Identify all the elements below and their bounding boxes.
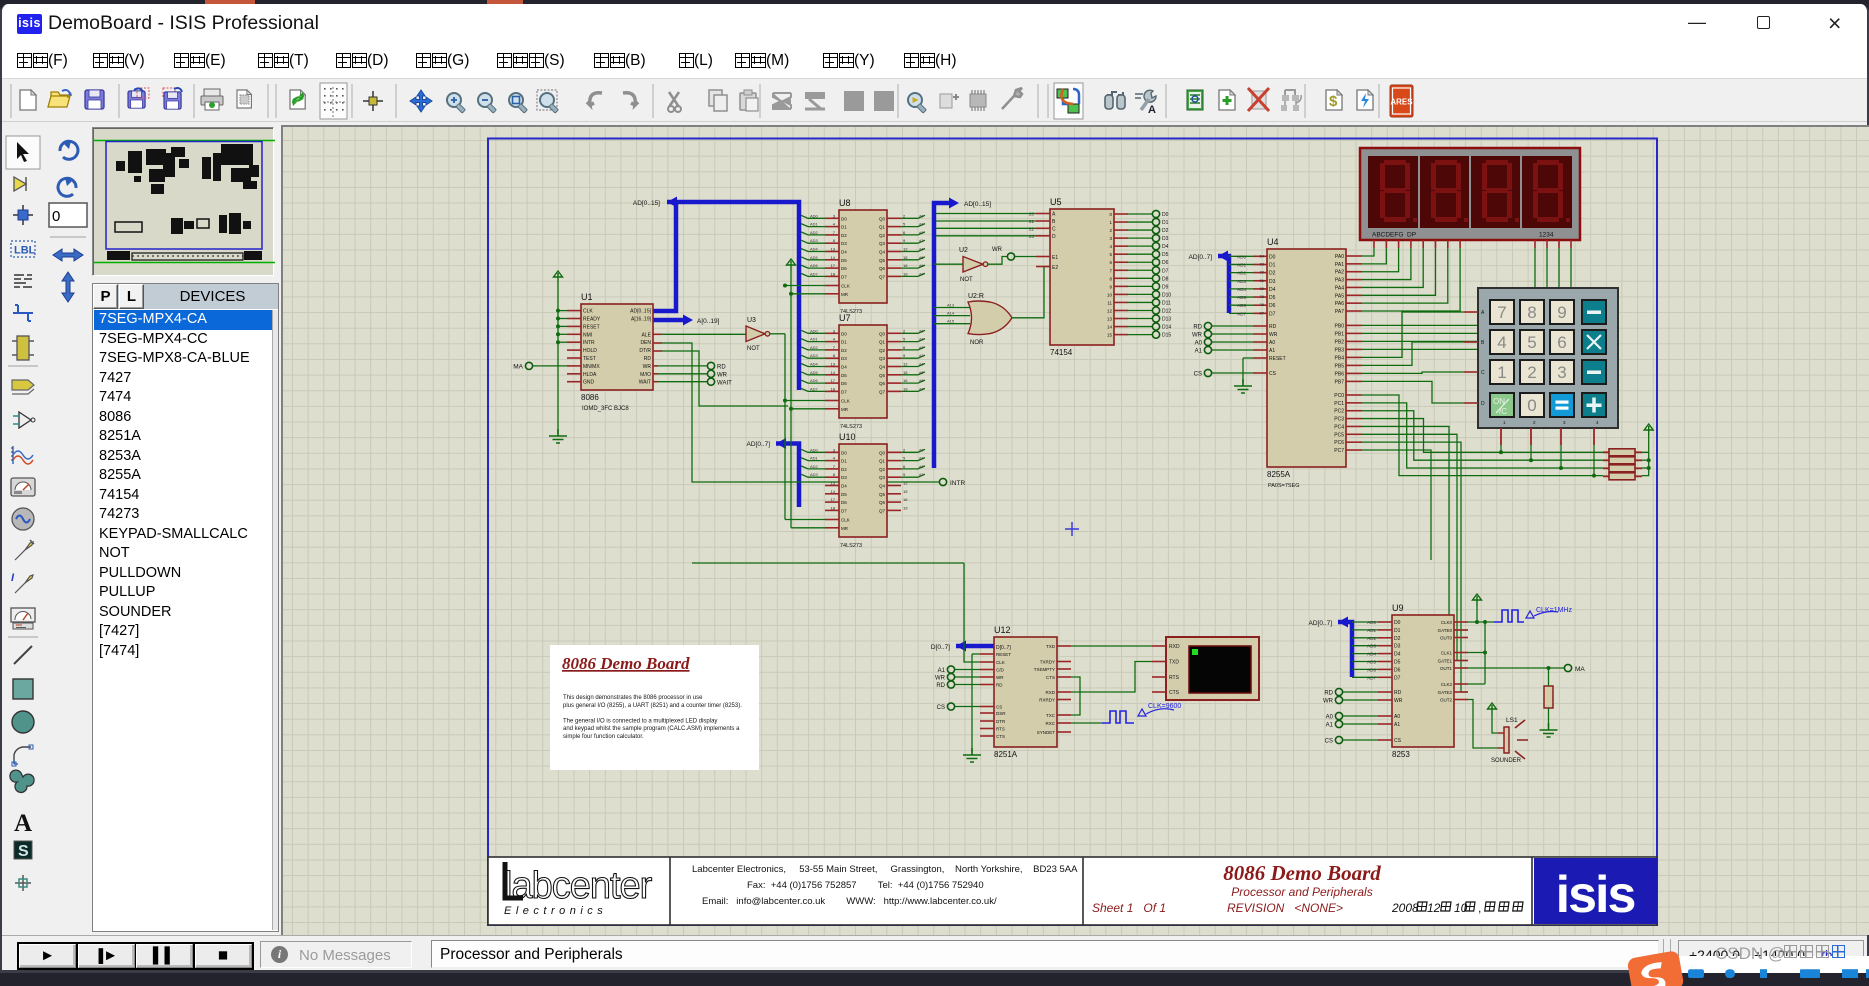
svg-text:d5: d5 [919,255,924,260]
svg-text:Q6: Q6 [879,500,886,505]
svg-text:Fax: +44 (0)1756 752857: Fax: +44 (0)1756 752857 Tel: +44 (0)1756… [747,880,984,891]
svg-text:PC6: PC6 [1334,440,1344,446]
svg-text:WR: WR [1323,699,1334,705]
svg-text:AD6: AD6 [1367,667,1376,672]
svg-text:A1: A1 [1326,723,1334,729]
svg-text:D6: D6 [841,381,847,386]
svg-text:AD0: AD0 [810,328,819,333]
svg-text:ABCDEFG DP: ABCDEFG DP [1372,232,1416,239]
svg-text:D4: D4 [1394,652,1401,658]
svg-text:WR: WR [935,676,946,682]
svg-text:5: 5 [1527,333,1536,352]
svg-text:AD1: AD1 [1367,628,1376,633]
svg-text:d0: d0 [919,328,924,333]
svg-text:NOR: NOR [970,340,984,346]
svg-text:12: 12 [1427,901,1441,915]
svg-text:D2: D2 [1394,636,1401,642]
svg-text:Q5: Q5 [879,373,886,378]
svg-text:6: 6 [903,464,906,469]
svg-text:D13: D13 [1162,317,1171,323]
svg-text:RTS: RTS [996,727,1005,732]
svg-text:A0: A0 [1326,715,1334,721]
svg-text:12: 12 [1107,308,1113,313]
svg-text:TXEMPTY: TXEMPTY [1034,667,1055,672]
svg-text:D: D [1481,401,1485,407]
svg-text:U4: U4 [1267,237,1279,247]
svg-text:U7: U7 [839,313,851,323]
svg-text:17: 17 [831,497,836,502]
svg-text:CLK: CLK [996,660,1005,665]
svg-text:8255A: 8255A [1267,470,1291,479]
svg-text:2: 2 [903,447,906,452]
svg-text:PB3: PB3 [1335,347,1345,353]
svg-text:D0: D0 [841,216,847,221]
svg-text:RXD: RXD [1169,644,1180,650]
svg-text:AD[0..7]: AD[0..7] [747,441,771,448]
svg-text:PB0: PB0 [1335,323,1345,329]
svg-text:A[16..19]: A[16..19] [631,317,652,323]
svg-text:5: 5 [903,337,906,342]
svg-text:AD3: AD3 [810,353,819,358]
svg-text:D7: D7 [841,389,847,394]
svg-text:E1: E1 [1052,255,1058,261]
svg-text:This design demonstrates the 8: This design demonstrates the 8086 proces… [563,695,703,701]
svg-text:A[0..19]: A[0..19] [697,318,720,325]
svg-text:PC0: PC0 [1334,393,1344,399]
svg-text:18: 18 [831,505,836,510]
svg-text:Email: info@labcenter.co.uk: Email: info@labcenter.co.uk WWW: http://… [702,896,997,907]
svg-text:OUT2: OUT2 [1440,698,1452,703]
svg-text:WR: WR [643,364,652,370]
svg-text:d4: d4 [919,362,924,367]
svg-text:isis: isis [1556,866,1635,924]
svg-text:Q0: Q0 [879,450,886,455]
svg-text:A1: A1 [1195,349,1203,355]
svg-text:AD2: AD2 [810,464,819,469]
svg-text:D12: D12 [1162,308,1171,314]
svg-text:WR: WR [1269,332,1278,338]
svg-text:HLDA: HLDA [583,372,597,378]
svg-text:C/D: C/D [996,668,1005,673]
svg-text:OUT1: OUT1 [1440,666,1452,671]
svg-text:D3: D3 [1162,236,1169,242]
svg-text:34: 34 [1260,253,1265,258]
svg-text:Q7: Q7 [879,274,886,279]
svg-text:D2: D2 [1162,228,1169,234]
svg-text:NOT: NOT [960,277,973,283]
svg-text:U12: U12 [994,625,1011,635]
svg-text:INTR: INTR [950,480,965,487]
svg-text:8086: 8086 [581,393,599,402]
svg-text:DTR: DTR [996,719,1006,724]
svg-text:PB7: PB7 [1335,379,1345,385]
svg-text:TEST: TEST [583,356,596,362]
svg-text:CLK: CLK [841,399,850,404]
svg-text:CS: CS [1394,738,1402,744]
svg-text:AD[0..15]: AD[0..15] [630,309,651,315]
svg-text:AD0: AD0 [1237,254,1246,259]
svg-text:AD2: AD2 [1237,271,1246,276]
svg-text:D7: D7 [1162,268,1169,274]
svg-text:CLK2: CLK2 [1441,682,1453,687]
svg-text:AD6: AD6 [810,378,819,383]
svg-text:D4: D4 [841,484,847,489]
svg-text:Labcenter Electronics, 53-: Labcenter Electronics, 53-55 Main Street… [692,864,1078,875]
svg-text:,: , [1478,901,1481,915]
svg-text:PA2: PA2 [1335,270,1344,276]
svg-text:PA7: PA7 [1335,309,1344,315]
svg-text:d2: d2 [919,230,924,235]
svg-text:RESET: RESET [1269,356,1286,362]
svg-text:D[0..7]: D[0..7] [931,644,950,651]
svg-text:E2: E2 [1052,265,1058,271]
svg-text:PB5: PB5 [1335,363,1345,369]
svg-text:A0: A0 [1269,340,1275,346]
svg-text:HOLD: HOLD [583,348,597,354]
svg-text:A15: A15 [947,319,955,324]
svg-text:D5: D5 [841,492,847,497]
svg-text:RD: RD [1269,324,1277,330]
svg-text:D5: D5 [841,373,847,378]
svg-text:AD2: AD2 [1367,636,1376,641]
svg-text:Q7: Q7 [879,389,886,394]
svg-text:Q5: Q5 [879,492,886,497]
svg-text:D1: D1 [1394,628,1401,634]
svg-text:PB4: PB4 [1335,355,1345,361]
svg-text:AD6: AD6 [1237,303,1246,308]
svg-text:D1: D1 [841,340,847,345]
svg-text:PC1: PC1 [1334,401,1344,407]
svg-text:D4: D4 [1269,287,1276,293]
svg-text:d0: d0 [919,447,924,452]
svg-text:1: 1 [1497,363,1506,382]
svg-text:AD[0..15]: AD[0..15] [633,200,660,207]
svg-text:D0: D0 [841,450,847,455]
svg-text:D15: D15 [1162,333,1171,339]
svg-text:RD: RD [996,683,1003,688]
svg-text:DEN: DEN [640,340,651,346]
svg-text:Q1: Q1 [879,340,886,345]
svg-text:D5: D5 [1394,660,1401,666]
svg-text:D7: D7 [841,508,847,513]
svg-text:8: 8 [1527,303,1536,322]
svg-text:simple four function calculato: simple four function calculator. [563,734,644,740]
svg-text:D0: D0 [1394,620,1401,626]
svg-text:MA: MA [513,364,523,371]
svg-text:RD: RD [644,356,652,362]
svg-text:17: 17 [831,263,836,268]
svg-text:D0: D0 [1269,254,1276,260]
svg-text:D3: D3 [841,241,847,246]
svg-text:D2: D2 [1269,271,1276,277]
svg-text:AD3: AD3 [1367,644,1376,649]
svg-text:MR: MR [841,407,849,412]
svg-text:29: 29 [1260,294,1265,299]
svg-text:18: 18 [831,386,836,391]
svg-text:U3: U3 [747,317,756,324]
svg-text:A0: A0 [1195,341,1203,347]
svg-text:0: 0 [1527,396,1536,415]
svg-text:D6: D6 [841,500,847,505]
svg-text:$: $ [1329,93,1338,110]
svg-text:d4: d4 [919,247,924,252]
svg-text:Q6: Q6 [879,381,886,386]
svg-text:A: A [14,810,32,837]
svg-text:0: 0 [52,208,60,225]
svg-text:D5: D5 [841,258,847,263]
svg-text:8086 Demo Board: 8086 Demo Board [1223,861,1381,885]
svg-text:AD0: AD0 [810,447,819,452]
svg-text:5: 5 [903,222,906,227]
svg-text:PB6: PB6 [1335,371,1345,377]
svg-text:D6: D6 [1394,667,1401,673]
svg-text:AD0: AD0 [810,213,819,218]
svg-text:RESET: RESET [583,324,600,330]
svg-text:NMI: NMI [583,332,592,338]
svg-text:Q7: Q7 [879,508,886,513]
svg-text:9: 9 [903,238,906,243]
svg-text:12: 12 [903,247,908,252]
svg-text:A13: A13 [947,303,955,308]
svg-text:Q0: Q0 [879,331,886,336]
svg-text:10: 10 [1107,292,1113,297]
svg-text:PA1: PA1 [1335,262,1344,268]
svg-text:2: 2 [1527,363,1536,382]
svg-text:AD4: AD4 [810,247,819,252]
svg-text:REVISION <NONE>: REVISION <NONE> [1227,901,1343,915]
svg-text:DT/R: DT/R [639,348,651,354]
svg-text:CTS: CTS [1046,675,1055,680]
svg-text:d3: d3 [919,353,924,358]
svg-text:D6: D6 [1269,303,1276,309]
svg-text:6: 6 [1557,333,1566,352]
svg-text:Q1: Q1 [879,225,886,230]
svg-text:ALE: ALE [642,332,652,338]
svg-text:CLK: CLK [583,309,593,315]
svg-text:AD1: AD1 [810,456,819,461]
svg-text:AD7: AD7 [810,271,819,276]
svg-text:Q0: Q0 [879,216,886,221]
svg-text:WAIT: WAIT [717,381,732,387]
svg-text:D14: D14 [1162,325,1171,331]
svg-text:D7: D7 [1269,311,1276,317]
svg-text:M/IO: M/IO [640,372,651,378]
svg-text:2: 2 [903,328,906,333]
svg-text:13: 13 [831,247,836,252]
svg-text:D4: D4 [841,250,847,255]
svg-text:DSR: DSR [996,711,1006,716]
svg-text:U8: U8 [839,198,851,208]
svg-text:AD3: AD3 [1237,279,1246,284]
svg-text:AD1: AD1 [810,222,819,227]
svg-text:14: 14 [831,255,836,260]
svg-text:8086 Demo Board: 8086 Demo Board [562,654,690,673]
svg-text:TXD: TXD [1046,644,1056,649]
svg-text:CS: CS [937,705,945,711]
svg-text:AD7: AD7 [1367,675,1376,680]
svg-text:U9: U9 [1392,603,1404,613]
svg-text:30: 30 [1260,286,1265,291]
svg-text:Electronics: Electronics [504,905,607,917]
svg-text:AD6: AD6 [810,263,819,268]
svg-text:8251A: 8251A [994,750,1018,759]
svg-text:20: 20 [1029,212,1035,217]
svg-text:D9: D9 [1162,284,1169,290]
svg-text:CLK: CLK [841,284,850,289]
svg-text:CLK1: CLK1 [1441,651,1453,656]
svg-text:PB1: PB1 [1335,331,1345,337]
svg-text:74LS273: 74LS273 [840,424,862,430]
svg-text:A14: A14 [947,311,955,316]
svg-text:AD4: AD4 [1367,652,1376,657]
svg-text:CTS: CTS [1169,690,1180,696]
svg-text:14: 14 [1107,325,1113,330]
svg-text:6: 6 [903,345,906,350]
svg-text:AD[0..7]: AD[0..7] [1189,254,1213,261]
svg-text:PA5: PA5 [1335,293,1344,299]
svg-text:GATE0: GATE0 [1438,628,1453,633]
svg-text:8253: 8253 [1392,750,1410,759]
svg-text:ARES: ARES [1390,98,1413,107]
svg-text:PC7: PC7 [1334,448,1344,454]
svg-text:Q6: Q6 [879,266,886,271]
svg-text:LBL: LBL [14,245,36,257]
svg-text:PC5: PC5 [1334,432,1344,438]
svg-text:D2: D2 [841,348,847,353]
svg-text:3: 3 [1557,363,1566,382]
svg-text:2008: 2008 [1391,901,1419,915]
svg-text:D0: D0 [1162,212,1169,218]
svg-text:plus general I/O (8255), a UAR: plus general I/O (8255), a UART (8251) a… [563,703,742,709]
svg-text:AD2: AD2 [810,230,819,235]
svg-text:U1: U1 [581,292,593,302]
svg-text:d0: d0 [919,213,924,218]
svg-text:MR: MR [841,292,849,297]
svg-text:I: I [11,572,15,584]
svg-text:D7: D7 [841,274,847,279]
svg-text:7: 7 [1497,303,1506,322]
svg-text:RXRDY: RXRDY [1039,698,1055,703]
svg-text:SOUNDER: SOUNDER [1491,758,1522,764]
svg-text:Q1: Q1 [879,459,886,464]
svg-text:d1: d1 [919,337,924,342]
svg-text:WR: WR [996,675,1004,680]
svg-text:Q2: Q2 [879,233,886,238]
svg-text:GND: GND [583,380,595,386]
svg-text:Q4: Q4 [879,365,886,370]
svg-text:PC4: PC4 [1334,424,1344,430]
svg-text:D6: D6 [841,266,847,271]
svg-text:15: 15 [903,370,908,375]
svg-text:D6: D6 [1162,260,1169,266]
svg-text:Sheet 1 Of 1: Sheet 1 Of 1 [1092,901,1166,915]
svg-text:23: 23 [1029,234,1035,239]
svg-text:AD5: AD5 [810,370,819,375]
svg-text:9: 9 [1557,303,1566,322]
svg-text:labcenter: labcenter [504,865,653,907]
svg-text:PA0S=7SEG: PA0S=7SEG [1268,483,1300,489]
svg-text:AD4: AD4 [1237,287,1246,292]
svg-text:32: 32 [1260,270,1265,275]
svg-text:AD3: AD3 [810,238,819,243]
svg-text:AD0: AD0 [1367,620,1376,625]
svg-text:TXC: TXC [1046,713,1056,718]
svg-text:INTR: INTR [583,340,595,346]
svg-text:12: 12 [903,481,908,486]
svg-text:AD4: AD4 [810,362,819,367]
svg-text:CLK=9600: CLK=9600 [1148,703,1181,710]
svg-text:31: 31 [1260,278,1265,283]
svg-text:AD[0..15]: AD[0..15] [964,201,991,208]
svg-text:WR: WR [1192,333,1203,339]
svg-text:AD[0..7]: AD[0..7] [1309,620,1333,627]
svg-text:RD: RD [1193,325,1202,331]
svg-text:READY: READY [583,317,601,323]
svg-text:21: 21 [1029,219,1035,224]
svg-text:D0: D0 [841,331,847,336]
svg-text:A1: A1 [1394,722,1400,728]
svg-text:RXD: RXD [1045,690,1055,695]
svg-text:D8: D8 [1162,276,1169,282]
svg-text:A1: A1 [1269,348,1275,354]
svg-text:D3: D3 [1394,644,1401,650]
svg-text:GATE1: GATE1 [1438,659,1453,664]
svg-text:19: 19 [903,271,908,276]
svg-text:NOT: NOT [747,346,760,352]
svg-text:18: 18 [831,271,836,276]
svg-text:16: 16 [903,263,908,268]
svg-text:PA3: PA3 [1335,278,1344,284]
svg-text:WR: WR [717,373,728,379]
svg-text:MN/MX: MN/MX [583,364,600,370]
svg-text:4: 4 [1497,333,1506,352]
svg-text:16: 16 [903,378,908,383]
svg-text:D3: D3 [841,356,847,361]
svg-text:Q3: Q3 [879,475,886,480]
svg-text:MA: MA [1575,666,1585,673]
svg-text:d7: d7 [919,386,924,391]
svg-text:D1: D1 [1269,262,1276,268]
svg-text:22: 22 [1029,226,1035,231]
svg-text:CLK0: CLK0 [1441,620,1453,625]
svg-text:D7: D7 [1394,675,1401,681]
svg-text:d6: d6 [919,263,924,268]
svg-text:1234: 1234 [1539,232,1554,239]
svg-text:AD7: AD7 [810,386,819,391]
svg-text:Q3: Q3 [879,241,886,246]
svg-text:Q3: Q3 [879,356,886,361]
svg-text:S: S [18,843,29,860]
svg-text:15: 15 [1107,333,1113,338]
svg-text:d2: d2 [919,464,924,469]
svg-text:Q2: Q2 [879,467,886,472]
svg-text:D4: D4 [1162,244,1169,250]
svg-text:RD: RD [1394,690,1402,696]
svg-text:74LS273: 74LS273 [840,543,862,549]
svg-text:PA6: PA6 [1335,301,1344,307]
svg-text:12: 12 [903,362,908,367]
svg-text:GATE2: GATE2 [1438,690,1453,695]
svg-text:IOMD_3FC BJC8: IOMD_3FC BJC8 [582,406,629,412]
svg-text:13: 13 [831,362,836,367]
svg-text:D5: D5 [1162,252,1169,258]
svg-text:WAIT: WAIT [639,380,651,386]
svg-text:CLK: CLK [841,518,850,523]
svg-text:CS: CS [1269,371,1277,377]
svg-text:AD5: AD5 [810,255,819,260]
svg-text:17: 17 [831,378,836,383]
svg-text:D3: D3 [1269,279,1276,285]
